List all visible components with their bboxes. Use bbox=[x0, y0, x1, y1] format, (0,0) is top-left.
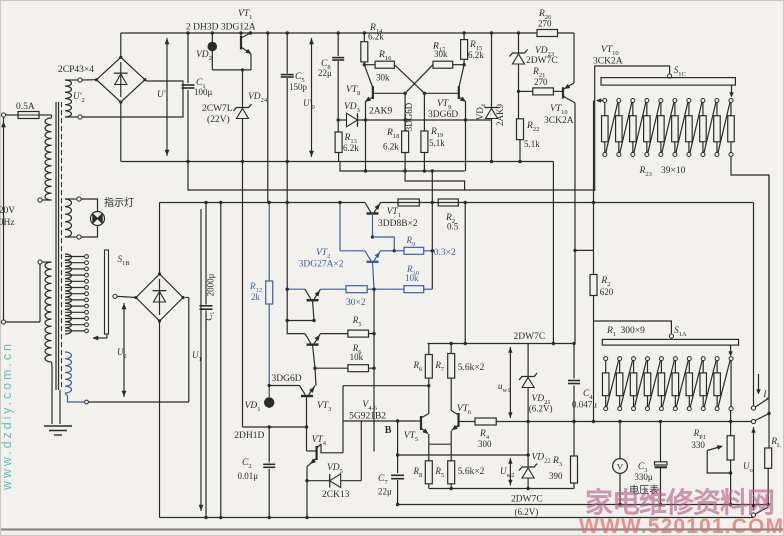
svg-text:22μ: 22μ bbox=[318, 68, 332, 78]
wire U2' to bridge1 bbox=[82, 79, 96, 81]
resistor R26 270 inline top rail bbox=[537, 30, 558, 37]
transistor VT3pre bbox=[287, 321, 305, 334]
switch S1B bar bbox=[105, 250, 109, 334]
resistor R19 5.1k bbox=[423, 93, 425, 131]
svg-text:2CW7L: 2CW7L bbox=[202, 104, 233, 114]
switch S1C bar bbox=[601, 78, 735, 86]
wire col432 from rail B bbox=[431, 171, 433, 289]
svg-text:30k: 30k bbox=[434, 49, 448, 59]
svg-text:0.5: 0.5 bbox=[447, 222, 459, 232]
svg-text:2k: 2k bbox=[251, 292, 261, 302]
wire V4-6 top row bbox=[343, 385, 429, 387]
arrow uw1 measure bbox=[509, 347, 511, 418]
wire col465 rail D to rail E bbox=[464, 203, 466, 344]
svg-text:5.1k: 5.1k bbox=[524, 139, 540, 149]
resistor R10 10k bbox=[404, 286, 424, 293]
svg-text:2CK13: 2CK13 bbox=[322, 490, 350, 500]
resistor R6b 10k bbox=[315, 367, 348, 369]
diode VD3 2AK9 row bbox=[338, 119, 346, 121]
voltmeter V bbox=[619, 422, 621, 459]
wire VT3 base down to row 427 bbox=[306, 396, 308, 427]
wire S1C bar to bank bbox=[731, 85, 733, 96]
wire rail D to output col bbox=[753, 203, 755, 406]
resistor RL bbox=[765, 448, 772, 468]
output terminal lower bbox=[751, 513, 755, 517]
svg-text:30k: 30k bbox=[376, 73, 390, 83]
svg-text:390: 390 bbox=[549, 471, 563, 481]
svg-text:3DG6D: 3DG6D bbox=[428, 110, 458, 120]
transistor VT10 3CK2A pnp bbox=[573, 33, 575, 37]
svg-text:2AK9: 2AK9 bbox=[369, 107, 392, 117]
svg-text:2000μ: 2000μ bbox=[206, 273, 216, 296]
switch S1A bar bbox=[602, 339, 738, 345]
image bottom border bbox=[0, 528, 784, 530]
arrow uw2 measure bbox=[509, 458, 511, 486]
wire row H to lower terminal bbox=[753, 517, 755, 519]
svg-text:3DG27A×2: 3DG27A×2 bbox=[299, 260, 344, 270]
svg-text:2DW7C: 2DW7C bbox=[514, 332, 546, 342]
svg-text:270: 270 bbox=[534, 77, 548, 87]
resistor bank R23 39x10 bbox=[603, 99, 607, 103]
fuse 0.5A bbox=[6, 114, 18, 116]
svg-text:50Hz: 50Hz bbox=[0, 218, 15, 228]
svg-text:0.5A: 0.5A bbox=[16, 102, 35, 112]
zener VD24 2CW7L bbox=[242, 70, 244, 108]
capacitor C3 330u bbox=[660, 422, 662, 462]
transistor VT1 2DH3D bbox=[240, 33, 242, 36]
wire bottom row G bbox=[399, 504, 769, 506]
resistor R12 2k blue bbox=[268, 203, 270, 282]
wire rail163 to col554 bbox=[552, 162, 554, 344]
transistor VT8 bbox=[372, 86, 374, 99]
svg-text:10k: 10k bbox=[350, 352, 364, 362]
wire rail C bbox=[188, 189, 595, 191]
svg-text:V: V bbox=[617, 462, 624, 472]
svg-text:2AK9: 2AK9 bbox=[495, 104, 505, 126]
svg-text:22μ: 22μ bbox=[378, 487, 392, 497]
resistor bank R1 300x9 bbox=[604, 357, 608, 361]
wire bridge1 bottom to rail A bbox=[120, 102, 122, 161]
svg-text:5.1k: 5.1k bbox=[429, 138, 445, 148]
svg-text:39×10: 39×10 bbox=[661, 166, 686, 176]
svg-text:3CK2A: 3CK2A bbox=[593, 57, 623, 67]
resistor R7 5.6k bbox=[450, 344, 452, 354]
wire VT2 lower base bbox=[313, 300, 315, 320]
wire bridge2 bottom down bbox=[159, 321, 161, 518]
row 455 reference bbox=[398, 454, 528, 456]
transformer core bbox=[55, 102, 57, 390]
ground bbox=[59, 390, 61, 424]
wire secondary bottom to bridge2 bbox=[89, 401, 189, 403]
diode VD5 2CK13 bbox=[307, 480, 330, 482]
transistor VT2 3DG27Ax2 upper bbox=[340, 250, 365, 252]
transformer main secondary winding bbox=[65, 254, 72, 334]
switch S1C wiper bbox=[595, 66, 670, 191]
wire VT3pre base col bbox=[313, 345, 316, 369]
resistor R16 30k bbox=[364, 64, 375, 66]
svg-text:0.3×2: 0.3×2 bbox=[434, 248, 456, 258]
svg-text:2DW7C: 2DW7C bbox=[511, 495, 543, 505]
selected tap arrow bbox=[93, 337, 107, 339]
output terminal upper bbox=[751, 419, 755, 423]
wire bank left feed arrow bbox=[597, 100, 605, 102]
svg-text:5G921B2: 5G921B2 bbox=[349, 412, 386, 422]
wire col374 bbox=[373, 289, 375, 451]
svg-text:家电维修资料网: 家电维修资料网 bbox=[585, 486, 775, 518]
capacitor C1 2000u main filter bbox=[205, 203, 207, 305]
wire S1B to bridge2 bbox=[113, 294, 117, 298]
wire primary bottom to ground bbox=[51, 362, 54, 424]
capacitor C4 0.047u bbox=[573, 344, 575, 379]
wire col 268 top bbox=[267, 33, 269, 203]
transformer primary winding lower bbox=[38, 260, 42, 264]
wire rail D (output bus +) bbox=[160, 202, 366, 204]
resistor R22 5.1k bbox=[518, 91, 520, 118]
output switch upper bbox=[751, 406, 755, 410]
svg-text:10k: 10k bbox=[405, 273, 419, 283]
wire S1A bar to bank bbox=[730, 345, 732, 355]
wire VT10 collector column bbox=[573, 249, 576, 252]
svg-text:6.2k: 6.2k bbox=[468, 50, 484, 60]
svg-text:(22V): (22V) bbox=[207, 114, 230, 125]
capacitor C8 22u bbox=[337, 33, 339, 56]
transistor VT6 bbox=[457, 413, 459, 427]
wire B node row bbox=[343, 420, 415, 422]
diode VD1 2DH1D bbox=[264, 397, 274, 407]
svg-text:6.2k: 6.2k bbox=[343, 143, 359, 153]
svg-text:150p: 150p bbox=[289, 82, 308, 92]
resistor R2 0.5 two boxes on rail D bbox=[398, 199, 419, 206]
wire rail E 2DW7C reference bbox=[428, 343, 576, 345]
wire col 242 from rail A bbox=[242, 162, 244, 428]
capacitor C2 0.01u bbox=[268, 427, 270, 463]
wire U2' bottom to bridge1 right bbox=[82, 81, 183, 117]
transformer secondary U2' winding bbox=[65, 80, 72, 117]
wire VT9 base cross to R16 bbox=[424, 92, 458, 94]
svg-text:620: 620 bbox=[600, 287, 614, 297]
arrow Uo measure bbox=[753, 427, 755, 510]
resistor R5 5.6k bbox=[448, 461, 455, 484]
svg-text:6.2k: 6.2k bbox=[368, 32, 384, 42]
resistor R3 390 bbox=[572, 420, 575, 423]
transformer lamp winding bbox=[65, 199, 72, 237]
svg-text:B: B bbox=[385, 425, 392, 436]
wire bank R1 bottom to RP1 bbox=[730, 411, 732, 422]
resistor R5b bbox=[321, 333, 348, 335]
svg-text:0.01μ: 0.01μ bbox=[238, 471, 259, 481]
svg-text:指示灯: 指示灯 bbox=[104, 196, 134, 209]
svg-text:2DH1D: 2DH1D bbox=[234, 431, 264, 441]
wire base jog to R9 node bbox=[373, 237, 395, 251]
arrow Io bbox=[758, 374, 760, 393]
wire top rail bbox=[121, 32, 537, 34]
svg-text:3DG6D: 3DG6D bbox=[272, 374, 302, 384]
arrow U1' measure bbox=[166, 38, 168, 156]
transistor VT2 lower bbox=[287, 288, 305, 290]
wire rail A (U1' minus) bbox=[121, 161, 554, 163]
svg-text:220V: 220V bbox=[0, 206, 15, 216]
resistor R2 620 bbox=[575, 249, 594, 251]
svg-text:2CP43×4: 2CP43×4 bbox=[58, 65, 94, 75]
diode VD2 indicator bbox=[211, 33, 213, 42]
wire bottom row F bbox=[429, 488, 574, 490]
wire row 320 zigzag bbox=[287, 320, 314, 322]
wire input left column bbox=[3, 117, 5, 320]
terminal input bottom bbox=[1, 320, 5, 324]
wire bus row 422 to output bbox=[528, 421, 753, 423]
capacitor C1 100u bbox=[187, 33, 189, 83]
wire VT1 base down bbox=[372, 214, 374, 238]
switch S1A wiper bbox=[669, 334, 673, 338]
transistor VT5 bbox=[420, 416, 422, 430]
resistor R17 30k bbox=[433, 61, 453, 68]
wire jog rail B to rail C bbox=[405, 171, 465, 190]
svg-text:2 DH3D 3DG12A: 2 DH3D 3DG12A bbox=[186, 23, 256, 33]
secondary lowest section winding bbox=[65, 352, 72, 393]
resistor R4 300 bbox=[459, 421, 476, 423]
svg-text:3DD8B×2: 3DD8B×2 bbox=[378, 219, 418, 229]
terminal input top bbox=[1, 113, 5, 117]
svg-text:270: 270 bbox=[538, 19, 552, 29]
resistor R6 5.6k bbox=[428, 344, 430, 355]
wire right column from R23 bbox=[768, 175, 770, 448]
capacitor C7 22u bbox=[397, 421, 399, 473]
wire bridge2 top to rail D bbox=[159, 203, 161, 275]
wire bank R23 bottom out bbox=[731, 157, 769, 397]
svg-text:WWW.520101.COM: WWW.520101.COM bbox=[579, 515, 783, 536]
wire bottom row H bbox=[160, 517, 754, 519]
resistor R14 6.2k bbox=[363, 33, 365, 42]
wire col315 to VT3 emitter bbox=[315, 368, 316, 385]
zener VD21 6.2V bbox=[527, 344, 529, 377]
transistor VT1 3DD8Bx2 pass bbox=[365, 203, 371, 213]
svg-text:VD₄: VD₄ bbox=[475, 104, 485, 120]
resistor R13 6.2k bbox=[337, 120, 339, 132]
svg-text:6.2k: 6.2k bbox=[383, 142, 399, 152]
arrow U0' measure bbox=[311, 38, 313, 157]
svg-text:5.6k×2: 5.6k×2 bbox=[458, 363, 485, 373]
wire VT2 base down bbox=[373, 262, 375, 290]
wire bridge1 top to top rail bbox=[120, 33, 122, 57]
wire VT9 emitter column bbox=[465, 102, 467, 172]
svg-text:330μ: 330μ bbox=[634, 472, 653, 482]
svg-text:(6.2V): (6.2V) bbox=[515, 507, 539, 517]
potentiometer RP1 330 bbox=[730, 422, 732, 436]
wire VT8 base to R17 cross bbox=[373, 92, 405, 94]
svg-text:300×9: 300×9 bbox=[621, 326, 646, 336]
capacitor C5 150p bbox=[286, 33, 288, 74]
indicator lamp 指示灯 bbox=[81, 199, 97, 212]
wire input bottom to winding tap bbox=[6, 321, 40, 323]
transistor VT9 bbox=[458, 86, 460, 99]
svg-text:2DW7C: 2DW7C bbox=[526, 56, 558, 66]
bridge rectifier 2 bbox=[136, 274, 183, 321]
arrow U2 measure bbox=[123, 303, 125, 397]
zener VD23 2DW7C bbox=[518, 33, 520, 53]
resistor R18 6.2k bbox=[404, 93, 406, 131]
svg-text:C₁: C₁ bbox=[204, 311, 214, 320]
zener VD22 6.2V bbox=[527, 422, 529, 468]
wire row 427 bbox=[243, 426, 307, 428]
resistor R9 0.3x2 bbox=[404, 247, 424, 254]
svg-text:5.6k×2: 5.6k×2 bbox=[458, 467, 485, 477]
svg-text:100μ: 100μ bbox=[194, 87, 213, 97]
svg-text:30×2: 30×2 bbox=[346, 298, 366, 308]
resistor R8 5.6k bbox=[425, 461, 432, 484]
wire S1A feed bbox=[594, 321, 672, 334]
wire col 221 bbox=[220, 203, 222, 518]
wire VD5 up to B row bbox=[360, 421, 362, 481]
arrow U1 measure bbox=[200, 209, 202, 511]
wire emitter row bbox=[429, 443, 451, 445]
diode VD4 2AK9 vertical bbox=[491, 33, 493, 108]
resistor 30x2 bbox=[346, 286, 367, 293]
svg-text:300: 300 bbox=[478, 439, 492, 449]
wire rail B bbox=[340, 162, 465, 172]
svg-text:3CK2A: 3CK2A bbox=[544, 116, 574, 126]
bridge rectifier 2CP43x4 bbox=[97, 57, 145, 102]
resistor R15 6.2k bbox=[463, 33, 465, 40]
transformer primary winding upper bbox=[48, 114, 52, 116]
svg-text:(6.2V): (6.2V) bbox=[529, 404, 553, 414]
svg-text:330: 330 bbox=[691, 440, 705, 450]
junction dots bbox=[363, 63, 366, 66]
